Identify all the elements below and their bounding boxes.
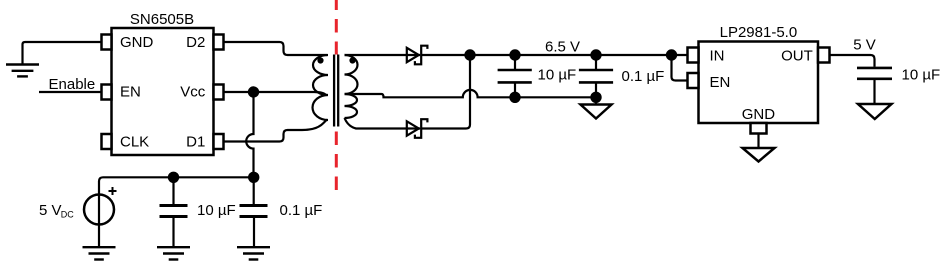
svg-text:EN: EN [120,84,141,101]
svg-text:OUT: OUT [781,47,813,64]
svg-text:D1: D1 [186,133,205,150]
svg-text:10 µF: 10 µF [538,67,577,84]
svg-text:SN6505B: SN6505B [130,11,194,28]
svg-text:D2: D2 [186,34,205,51]
svg-text:10 µF: 10 µF [197,202,236,219]
svg-text:IN: IN [710,47,725,64]
svg-text:LP2981-5.0: LP2981-5.0 [720,24,798,41]
svg-text:6.5 V: 6.5 V [545,39,580,56]
svg-text:10 µF: 10 µF [902,66,941,83]
svg-text:CLK: CLK [120,133,149,150]
svg-text:GND: GND [742,106,776,123]
svg-text:5 V: 5 V [853,37,876,54]
svg-text:GND: GND [120,34,154,51]
svg-text:Enable: Enable [49,76,96,93]
svg-text:0.1 µF: 0.1 µF [622,68,665,85]
svg-text:Vcc: Vcc [180,84,206,101]
svg-text:5 V: 5 V [39,202,62,219]
svg-text:DC: DC [61,210,74,220]
svg-text:0.1 µF: 0.1 µF [280,202,323,219]
svg-text:EN: EN [710,74,731,91]
